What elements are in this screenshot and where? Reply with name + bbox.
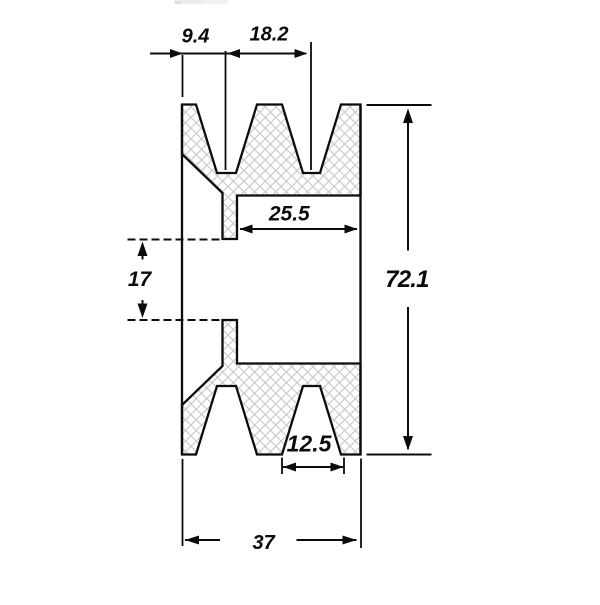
dim 9.4 arrow	[170, 49, 183, 58]
dim 72.1 bottom extension	[367, 454, 432, 456]
extension line x=311	[310, 42, 312, 170]
dim 18.2 left arrow	[227, 49, 240, 58]
dim 37 line right segment	[297, 539, 357, 541]
dim 37 left extension	[182, 459, 184, 546]
dim 17 down arrow	[138, 304, 148, 319]
left outer edge	[181, 105, 183, 455]
dim 18.2 right arrow	[295, 49, 308, 58]
dim 72.1 line upper segment	[407, 111, 409, 251]
svg-text:37: 37	[252, 532, 275, 554]
faint cropped artifact top	[174, 0, 228, 4]
dim 25.5 line	[240, 228, 357, 230]
svg-text:9.4: 9.4	[182, 26, 210, 48]
dim 17 up arrow shaft	[142, 246, 144, 260]
dim 72.1 top extension	[367, 104, 432, 106]
svg-text:72.1: 72.1	[385, 266, 429, 293]
dim 72.1 up arrow	[403, 109, 413, 124]
dim 37 right arrow	[343, 536, 357, 545]
dim 12.5 line	[283, 466, 343, 468]
svg-text:25.5: 25.5	[268, 203, 310, 226]
extension line x=182.5 top	[182, 55, 184, 97]
dim 37 left arrow	[185, 536, 199, 545]
dim 12.5 left arrow	[283, 463, 296, 472]
extension line x=225.5	[225, 51, 227, 170]
dim 72.1 line lower segment	[407, 307, 409, 449]
dim 25.5 right arrow	[345, 225, 358, 234]
pulley upper hatched section	[182, 105, 361, 240]
dashed bore line lower	[128, 319, 223, 321]
dim 17 up arrow	[138, 242, 148, 257]
svg-text:17: 17	[128, 268, 153, 291]
dim 17 down arrow shaft	[142, 300, 144, 313]
dim 9.4 leader line	[150, 53, 306, 55]
svg-text:18.2: 18.2	[250, 24, 289, 46]
dim 37 right extension	[360, 459, 362, 549]
pulley lower hatched section	[182, 320, 361, 455]
right outer edge	[359, 105, 361, 455]
dim 25.5 left arrow	[240, 225, 253, 234]
dim 72.1 down arrow	[403, 436, 413, 451]
dim 12.5 left extension	[281, 458, 283, 475]
dim 12.5 right arrow	[331, 463, 344, 472]
dim 37 line left segment	[185, 539, 220, 541]
dashed bore line upper	[128, 239, 223, 241]
svg-text:12.5: 12.5	[287, 431, 333, 457]
dim 12.5 right extension	[343, 458, 345, 475]
